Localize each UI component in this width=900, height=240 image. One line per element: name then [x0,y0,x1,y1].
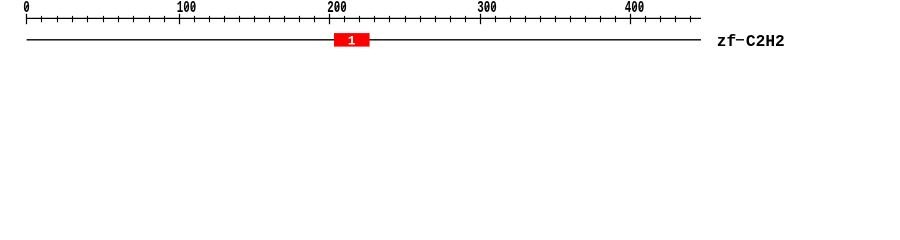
svg-text:100: 100 [177,0,196,18]
ruler baseline [26,17,701,19]
svg-text:zf: zf [717,33,736,51]
svg-text:300: 300 [477,0,496,18]
svg-text:0: 0 [23,0,30,18]
svg-text:200: 200 [327,0,346,18]
hyphen of domain name [736,39,744,40]
slashed-zero strokes on ruler digits [25,4,643,10]
ruler minor ticks (every 10 residues) [42,16,691,22]
ruler major tick 400 [630,14,632,24]
protein backbone line (left of domain) [27,39,334,41]
svg-text:C2H2: C2H2 [746,33,785,51]
protein backbone line (right of domain) [370,39,702,41]
zf-C2H2 domain box (residues ~204-227) [334,33,370,47]
svg-text:1: 1 [348,33,356,48]
ruler major tick 300 [480,14,482,24]
ruler major tick 200 [329,14,331,24]
ruler major tick 100 [179,14,181,24]
svg-text:400: 400 [625,0,644,18]
ruler major tick 0 [26,14,28,24]
